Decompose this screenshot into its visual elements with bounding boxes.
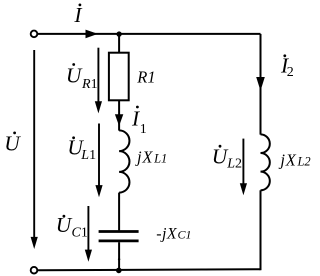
svg-text:2: 2	[287, 65, 294, 80]
svg-text:R1: R1	[136, 67, 155, 86]
label U_C1	[56, 213, 88, 241]
wire middle branch upper (node to resistor)	[118, 34, 120, 53]
svg-text:I: I	[73, 3, 82, 27]
voltage arrow U_C1	[85, 206, 92, 262]
label I2	[280, 53, 294, 80]
svg-text:-jXC1: -jXC1	[156, 225, 191, 242]
capacitor C1 (two plates)	[99, 232, 139, 241]
current arrowhead I2	[256, 77, 265, 91]
label I1	[131, 106, 147, 138]
node junction bottom (dot)	[116, 268, 122, 274]
wire middle branch (resistor to inductor)	[118, 100, 120, 130]
node speck on wire below capacitor	[118, 258, 120, 260]
svg-text:R1: R1	[81, 77, 98, 92]
svg-text:C1: C1	[72, 226, 88, 241]
svg-text:I: I	[131, 106, 140, 130]
wire top (T1 to right corner)	[37, 33, 260, 35]
voltage arrow U_L1	[95, 124, 102, 198]
wire bottom (T2 to right branch)	[37, 269, 260, 270]
svg-text:L1: L1	[80, 148, 96, 163]
voltage arrow U_L2	[240, 139, 247, 196]
svg-text:U: U	[4, 132, 21, 156]
label U_L2	[212, 145, 242, 172]
inductor L1 (jXL1 coil)	[119, 130, 129, 192]
current arrowhead I1	[115, 114, 123, 126]
wire inductor L2 to bottom wire	[260, 190, 262, 270]
label U (source voltage with dot)	[4, 132, 21, 156]
svg-text:L2: L2	[226, 157, 242, 172]
svg-text:1: 1	[140, 122, 147, 137]
node junction top (dot at x=119)	[116, 31, 121, 36]
inductor L2 (jXL2 coil)	[261, 134, 270, 190]
terminal T1 (top-left)	[31, 31, 38, 38]
voltage arrow U_R1	[95, 48, 102, 114]
wire capacitor C1 to bottom node	[118, 242, 120, 270]
wire inductor L1 to capacitor C1	[118, 193, 120, 231]
current arrow I (arrowhead on top wire)	[86, 30, 98, 39]
voltage arrow U (source voltage, left side)	[31, 50, 38, 249]
resistor R1	[109, 53, 129, 101]
label U_L1	[67, 136, 96, 163]
terminal T2 (bottom-left)	[31, 267, 38, 274]
label U_R1	[66, 63, 98, 92]
wire right branch (corner to inductor L2)	[260, 34, 262, 135]
svg-text:U: U	[66, 63, 83, 87]
label I (current I with dot)	[73, 3, 82, 27]
